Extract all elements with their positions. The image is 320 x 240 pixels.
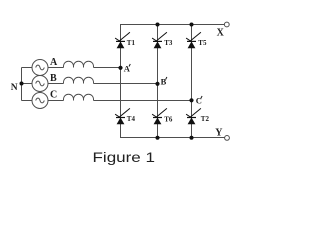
- wire phase C segment: [22, 100, 192, 102]
- svg-text:T1: T1: [127, 39, 136, 47]
- terminal Y: [225, 136, 230, 141]
- wire bridge leg 2: [157, 24, 159, 138]
- svg-text:A: A: [50, 57, 58, 68]
- junction bottom rail leg3: [190, 136, 194, 140]
- node N junction: [20, 82, 24, 86]
- thyristor T1: [115, 32, 130, 48]
- thyristor T4: [115, 108, 130, 124]
- svg-text:T3: T3: [164, 39, 173, 47]
- wire bridge leg 3: [191, 24, 193, 138]
- inductor LA: [63, 61, 93, 67]
- node A' junction: [118, 66, 122, 70]
- thyristor T6: [152, 108, 167, 124]
- svg-text:B: B: [161, 76, 167, 86]
- wire bridge leg 1: [120, 24, 122, 138]
- source VA: [32, 60, 48, 76]
- thyristor T3: [152, 32, 167, 48]
- wire bottom rail: [120, 137, 225, 139]
- svg-text:C: C: [50, 90, 57, 101]
- svg-text:T2: T2: [201, 115, 210, 123]
- node C' junction: [189, 98, 193, 102]
- junction top rail leg3: [190, 23, 194, 27]
- junction bottom rail leg2: [156, 136, 160, 140]
- node B' junction: [155, 82, 159, 86]
- thyristor T2: [186, 108, 201, 124]
- svg-text:T6: T6: [164, 115, 173, 123]
- wire neutral bus: [21, 68, 23, 101]
- svg-text:Figure 1: Figure 1: [93, 150, 156, 165]
- svg-text:T5: T5: [198, 39, 207, 47]
- svg-text:C: C: [196, 95, 202, 105]
- source VC: [32, 93, 48, 109]
- svg-text:N: N: [11, 83, 18, 93]
- wire phase B segment: [22, 83, 158, 85]
- svg-text:X: X: [217, 28, 225, 39]
- junction top rail leg2: [156, 23, 160, 27]
- terminal X: [224, 22, 229, 27]
- inductor LB: [63, 77, 93, 83]
- svg-text:B: B: [50, 73, 57, 84]
- wire phase A segment: [22, 67, 121, 69]
- source VB: [32, 76, 48, 92]
- wire top rail: [120, 24, 224, 26]
- inductor LC: [63, 94, 93, 100]
- svg-text:T4: T4: [127, 115, 136, 123]
- thyristor T5: [186, 32, 201, 48]
- svg-text:Y: Y: [215, 128, 223, 139]
